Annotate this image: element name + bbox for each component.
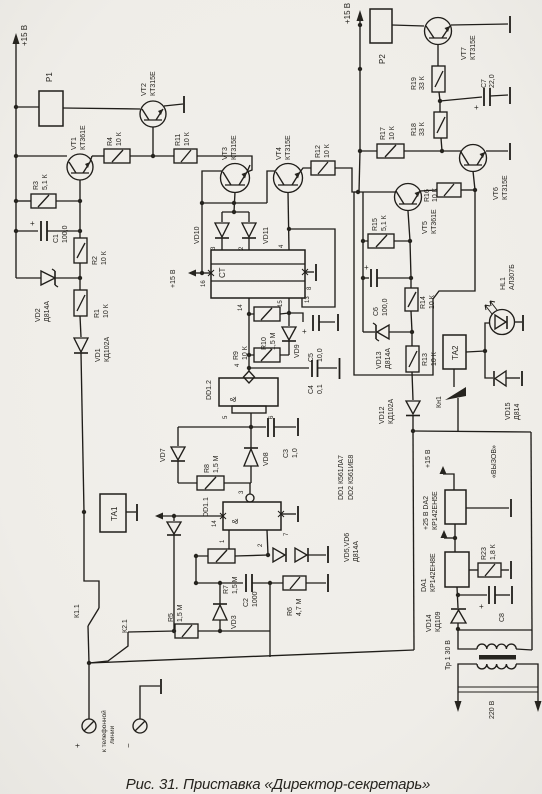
svg-text:13: 13 [305,296,311,303]
regulator DA2 [445,490,466,524]
wire R16 to bypass node [461,189,475,191]
wire TA1 right to terminal [126,511,136,513]
svg-text:R12: R12 [315,145,322,158]
svg-text:22,0: 22,0 [489,74,496,88]
pin 14 wire with arrow [163,515,223,517]
wire VT2 emitter to terminal [164,104,183,106]
svg-text:100,0: 100,0 [62,225,69,243]
diode VD6 [295,548,307,562]
terminal circle + (phone line) [82,719,96,733]
svg-text:VD3: VD3 [231,615,238,629]
svg-text:10 К: 10 К [432,187,439,202]
svg-text:VT1: VT1 [71,137,78,150]
terminal bar (R6) [327,574,329,592]
svg-text:КР142ЕН8Е: КР142ЕН8Е [430,553,437,592]
svg-text:КТ315Е: КТ315Е [470,35,477,60]
capacitor C5 10.0 [289,313,335,322]
svg-text:+: + [302,327,307,336]
svg-text:VD5,VD6: VD5,VD6 [344,533,351,562]
wire y192 to VT5 collector [354,191,396,193]
terminal bar [160,679,162,694]
wire P2 to VT7 [392,25,424,26]
wire long line to transformer [89,650,414,663]
svg-text:VD9: VD9 [294,344,301,358]
svg-text:КТ315Е: КТ315Е [150,71,157,96]
wire VT6 emitter to terminal [486,150,508,152]
svg-text:С8: С8 [499,613,506,622]
node dots middle [172,201,291,633]
pin 8 ground terminal [305,271,314,273]
svg-text:Р2: Р2 [378,54,387,64]
wire DA2 right to terminal [466,507,509,509]
svg-text:R19: R19 [411,77,418,90]
relay P1 [39,91,63,126]
wire VT6 base down [473,171,475,190]
svg-text:С4: С4 [308,385,315,394]
transformer Tr1 [458,629,477,649]
wire rail to R17 [360,150,377,152]
terminal bar (R23) [510,561,512,579]
diode VD5 [273,548,285,562]
terminal bar (VD15) [521,371,523,386]
svg-text:R9: R9 [233,351,240,360]
transformer TA2 [443,335,466,369]
wire R2 to VD2 node [79,263,81,290]
wire base line y=156 [16,155,67,157]
svg-text:DD2 К561ИЕ8: DD2 К561ИЕ8 [348,455,355,500]
svg-text:4,7 М: 4,7 М [296,598,303,616]
svg-text:ТА2: ТА2 [451,345,460,360]
terminal bar (VD6) [327,546,329,563]
svg-text:10 К: 10 К [324,143,331,158]
capacitor C1 100.0 [40,221,42,241]
wire VT3 collector to left node [202,171,222,203]
wire VT4 base down to pin4 [288,192,289,250]
svg-text:VT5: VT5 [422,221,429,234]
svg-text:10 К: 10 К [389,125,396,140]
node +15V arrow (DA2 out) [443,474,454,490]
svg-text:10 К: 10 К [431,351,438,366]
svg-text:R8: R8 [204,464,211,473]
svg-text:«ВЫЗОВ»: «ВЫЗОВ» [491,445,498,478]
resistor R7 1.5M [208,549,235,563]
transistor VT3 KT315E [221,164,250,193]
svg-text:220 В: 220 В [489,700,496,719]
resistor R14 10K vertical [405,288,418,311]
capacitor C3 [267,418,269,437]
svg-text:R18: R18 [411,123,418,136]
resistor R13 10K vertical [406,346,419,372]
diode VD9 [288,313,290,326]
resistor R6 4.7M [283,576,306,590]
diode VD1 KD102A [74,338,88,352]
transistor VT5 KT361E [395,184,422,211]
wire node to + line terminal [88,663,90,719]
wire VT1 base down [79,180,81,238]
svg-text:КТ361Е: КТ361Е [431,209,438,234]
transistor VT6 KT315E [460,145,487,172]
svg-text:14: 14 [212,520,218,527]
svg-text:1,5 М: 1,5 М [177,604,184,622]
svg-text:+: + [364,263,369,272]
svg-text:Рис. 31. Приставка «Директор-с: Рис. 31. Приставка «Директор-секретарь» [126,776,430,793]
svg-text:С2: С2 [243,598,250,607]
svg-text:Д814А: Д814А [44,301,51,322]
svg-text:VT3: VT3 [222,147,229,160]
svg-text:+: + [474,103,479,112]
resistor R11 10K [174,149,197,163]
svg-text:15: 15 [278,300,284,307]
svg-text:ТА1: ТА1 [110,506,119,521]
pin 16 +15V arrow [196,272,211,274]
transistor VT1 KT361E [67,154,93,180]
svg-text:Д814: Д814 [514,403,521,420]
svg-text:14: 14 [238,304,244,311]
svg-text:VD15: VD15 [505,402,512,420]
diode VD8 [250,427,252,448]
capacitor C4 0.1 [249,367,309,369]
svg-text:1,5 М: 1,5 М [213,455,220,473]
wire TA2 right [466,351,485,352]
wire VT4 emitter to R12 [300,168,311,172]
resistor R15 5.1K [368,234,394,248]
wire VT5 base down chain [408,211,411,288]
svg-text:VD7: VD7 [160,448,167,462]
wire collector tie line y203 [202,202,267,204]
svg-text:к телефонной: к телефонной [100,710,108,752]
svg-text:СТ: СТ [218,267,227,278]
svg-text:DD1.1: DD1.1 [203,497,210,517]
pin 7 terminal [281,513,296,515]
svg-text:КТ315Е: КТ315Е [231,135,238,160]
wire C1 to VT1 base line [47,230,80,232]
led HL1 AL307B [485,323,490,351]
svg-text:VT4: VT4 [276,147,283,160]
resistor R12 10K [311,161,335,175]
svg-text:Тр 1 30 В: Тр 1 30 В [445,640,452,670]
svg-text:VD14: VD14 [426,614,433,632]
wire DA2 to DA1 [454,524,456,552]
svg-text:VD13: VD13 [376,351,383,369]
svg-text:10 К: 10 К [116,131,123,146]
svg-text:33 К: 33 К [419,121,426,136]
terminal bar (VT2 emitter) [183,96,185,113]
svg-text:VT7: VT7 [461,47,468,60]
node dots right [356,23,487,631]
wire rail down to y192 [359,151,360,192]
wire VD rail y212 [222,211,249,213]
wire DA1 down [457,587,458,608]
resistor R10 1.5M [254,307,280,321]
svg-text:&: & [229,396,238,402]
regulator DA1 [445,552,469,587]
svg-text:10 К: 10 К [184,131,191,146]
svg-text:10 К: 10 К [429,294,436,309]
resistor R2 10K vertical [74,238,87,263]
transistor VT2 KT315E [140,101,166,127]
contact K2.1 [89,632,128,663]
transistor VT4 KT315E [274,164,303,193]
wire VT3 base down [234,192,235,212]
svg-text:Д814А: Д814А [385,348,392,369]
gate DD1.1 inverter bubble [249,483,251,494]
svg-text:+: + [30,219,35,228]
wire VD1 down to TA1 [81,353,84,512]
svg-text:1,0: 1,0 [292,448,299,458]
wire TA1 node down to K1.1 [84,512,99,608]
wire R19 to node [439,92,440,101]
wire R4 to R11 [130,155,174,157]
node dots [14,105,155,665]
resistor R5 1.5M [175,624,198,638]
wire K1.1 to line node [88,626,89,663]
svg-text:R5: R5 [168,613,175,622]
svg-text:КТ315Е: КТ315Е [502,175,509,200]
svg-text:К1.1: К1.1 [74,604,81,618]
svg-text:DD1.2: DD1.2 [206,380,213,400]
pin 4 diamond [248,368,250,371]
svg-text:+15 В: +15 В [425,449,432,468]
capacitor C6 100.0 [363,277,369,279]
contact K1.1 [88,608,99,626]
svg-text:Р1: Р1 [45,72,54,82]
diode VD14 KD109 [451,608,466,610]
terminal bar (TA1) [136,504,138,521]
svg-text:10 К: 10 К [103,303,110,318]
node arrow +25V [444,537,455,539]
svg-text:VD11: VD11 [263,227,270,244]
wire VT1 emitter up to y156 [90,156,92,162]
resistor R17 10K [377,144,404,158]
svg-text:VT2: VT2 [141,83,148,96]
svg-text:−: − [124,743,133,748]
svg-text:HL1: HL1 [500,277,507,290]
wire down to line wire [269,583,271,657]
wire node x202 to pin16 [201,203,203,273]
wire R11 to VT3 emitter [197,156,252,172]
wire VT7 base down [437,44,439,66]
svg-text:R2: R2 [92,256,99,265]
svg-text:Кн1: Кн1 [436,396,443,408]
diode VD3 [219,583,221,604]
svg-text:&: & [231,518,240,524]
resistor R16 10K [437,183,461,197]
svg-text:КР142ЕН5Е: КР142ЕН5Е [432,491,439,530]
svg-text:R17: R17 [380,127,387,140]
gate DD1.1 [223,502,281,530]
gate DD1.2 [219,378,278,406]
wire K2.1 to R5 [128,631,175,632]
resistor R18 33K vertical [434,112,447,138]
resistor R4 10K [104,149,130,163]
wire bypass right rail [354,190,475,375]
svg-text:КД102А: КД102А [388,399,395,424]
terminal bar (C8) [511,586,513,604]
resistor R9 10K [254,348,280,362]
wire left rail to P1 [16,106,39,108]
resistor R23 1.8K [478,563,501,577]
terminal bar (HL1) [522,315,524,331]
diode VD11 [248,212,250,222]
svg-text:DA1: DA1 [421,578,428,592]
ic U1 counter box [211,250,305,298]
wire VT5 emitter to R16 [420,190,437,191]
wire R1 to VD1 [80,316,81,337]
wire inner rail [362,192,364,332]
wire - terminal up to bar [140,686,160,719]
svg-text:R6: R6 [287,607,294,616]
svg-text:VD1: VD1 [95,348,102,362]
relay P2 [370,9,392,43]
capacitor C2 1000 [196,582,243,584]
diode VD2 D814A zener [41,271,55,285]
svg-text:DD1 К561ЛА7: DD1 К561ЛА7 [338,455,345,500]
svg-text:VD10: VD10 [194,226,201,244]
svg-text:R4: R4 [107,137,114,146]
resistor R8 1.5M [197,476,224,490]
svg-text:VD2: VD2 [35,308,42,322]
terminal bar (VT7) [509,16,511,33]
transistor VT7 KT315E [425,18,452,45]
svg-text:33 К: 33 К [419,75,426,90]
svg-text:R13: R13 [422,353,429,366]
svg-text:1,5 М: 1,5 М [232,576,239,594]
wire rail to VD2 [16,277,41,279]
resistor R1 10K vertical [74,290,87,316]
resistor R19 33K vertical [432,66,445,92]
wire y156 to R4 [92,155,104,157]
resistor R3 5.1K [31,194,56,208]
svg-text:1000: 1000 [252,591,259,607]
diode VD12 KD102A [406,401,420,414]
terminal bar (VT6) [509,143,511,160]
svg-text:+15 В: +15 В [343,3,352,24]
pin 2 lead [267,530,268,555]
wire right rail from P2 [359,25,361,151]
wire VT2 base down [152,127,154,155]
svg-text:R3: R3 [33,181,40,190]
svg-text:КТ315Е: КТ315Е [285,135,292,160]
svg-text:R16: R16 [424,189,431,202]
svg-text:10,0: 10,0 [317,348,324,362]
wire rail to R3 [16,200,31,202]
svg-text:VD12: VD12 [379,406,386,424]
svg-text:VD8: VD8 [263,452,270,466]
svg-text:Д814А: Д814А [353,541,360,562]
diode VD7 [177,427,179,446]
wire DA1 right to R23 [469,569,478,571]
svg-text:10 К: 10 К [101,250,108,265]
wire R3 to VT1 base node [56,200,80,202]
svg-text:+15 В: +15 В [20,25,29,46]
svg-text:5,1 К: 5,1 К [42,173,49,190]
svg-text:КД109: КД109 [435,611,442,632]
wire rail to C1 [16,230,38,232]
diode VD15 D814 [485,351,493,378]
wire bell line y431 [413,431,531,432]
node +15V left supply arrow [15,44,17,278]
diode VD10 [221,212,223,222]
wire y427 [178,426,266,428]
wire rail x413 down to line [413,431,414,650]
wire P1 to VT2 collector [63,108,140,109]
wire pin13 loop [289,229,335,307]
svg-text:+: + [479,602,484,611]
node +15V right supply arrow [359,14,361,25]
svg-text:R23: R23 [481,547,488,560]
svg-text:К2.1: К2.1 [122,619,129,633]
wire VT4 collector to tie line [267,171,275,203]
svg-text:R1: R1 [94,309,101,318]
wire R17 to VT6 collector [404,150,461,152]
svg-text:С6: С6 [373,307,380,316]
capacitor C7 22.0 [440,97,482,101]
svg-text:С1: С1 [53,234,60,243]
pin 1 lead [228,530,230,549]
wire pin14 down to DD1.2 [248,314,250,368]
svg-text:АЛ307Б: АЛ307Б [509,264,516,290]
terminal circle - (phone line) [133,719,147,733]
switch Kn1 [453,369,455,387]
svg-text:КД102А: КД102А [104,337,111,362]
wire DD1.2 out down [250,413,252,427]
svg-text:линии: линии [109,725,116,744]
svg-text:R7: R7 [223,585,230,594]
wire R7 left down to C2 [195,556,197,583]
diode VD4 [173,516,175,521]
diode VD13 D814A zener [363,331,375,333]
capacitor C8 [458,594,487,596]
svg-text:100,0: 100,0 [382,298,389,316]
svg-text:10 К: 10 К [242,345,249,360]
svg-text:R14: R14 [420,296,427,309]
svg-text:R11: R11 [175,134,182,146]
wire right rail down [531,432,532,630]
svg-text:16: 16 [201,280,207,287]
pin 14 lead [248,298,250,314]
svg-text:+: + [73,743,82,748]
svg-text:R15: R15 [372,218,379,231]
svg-text:0,1: 0,1 [317,384,324,394]
svg-text:+15 В: +15 В [170,269,177,288]
svg-text:5,1 К: 5,1 К [381,214,388,231]
svg-text:VT6: VT6 [493,187,500,200]
terminal bar (C7) [509,87,511,104]
svg-text:1,8 К: 1,8 К [490,543,497,560]
wire R12 to right rail [335,168,358,192]
wire VT7 emitter to terminal [451,24,508,25]
terminal bar (DA2) [510,499,512,517]
svg-text:КТ361Е: КТ361Е [80,125,87,150]
svg-text:С7: С7 [481,79,488,88]
svg-text:+25 В DA2: +25 В DA2 [423,496,430,530]
wire VT3 emitter up [247,165,250,172]
pin 15 lead [288,298,290,313]
svg-text:С3: С3 [283,449,290,458]
transformer TA1 [100,494,126,532]
